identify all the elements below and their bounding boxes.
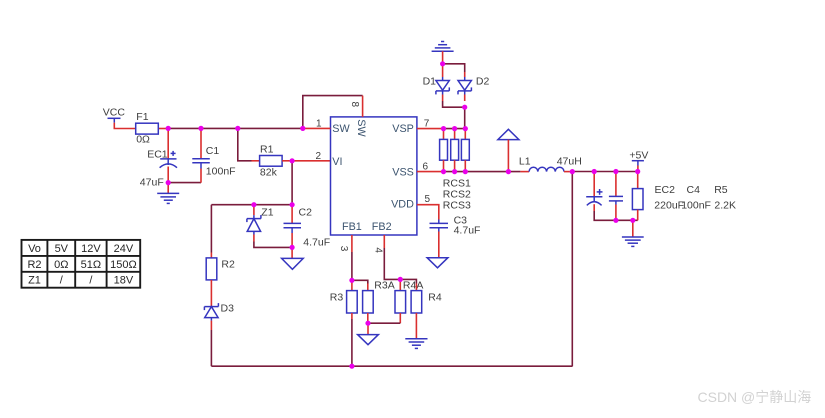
- resistor R3A: [363, 284, 374, 324]
- svg-text:5V: 5V: [55, 243, 69, 255]
- svg-text:Z1: Z1: [261, 206, 273, 218]
- pin 1 lead: [303, 127, 331, 129]
- pin 8 lead: [362, 96, 364, 117]
- junction bottom rail at R3: [349, 364, 354, 369]
- capacitor EC1: [160, 129, 177, 183]
- power port VCC: [103, 107, 126, 123]
- junction C2 bottom: [290, 245, 295, 250]
- wire VCC to F1: [114, 123, 135, 129]
- svg-text:82k: 82k: [260, 167, 278, 179]
- power port +5V: [629, 149, 648, 171]
- junction pin 1 node: [300, 126, 305, 131]
- wire rail to R1: [238, 128, 252, 160]
- svg-text:4.7uF: 4.7uF: [454, 224, 481, 236]
- junction VSS rail RCS1: [441, 169, 446, 174]
- svg-text:4.7uF: 4.7uF: [303, 237, 330, 249]
- svg-text:+5V: +5V: [629, 149, 648, 161]
- ground under R4: [405, 339, 427, 349]
- svg-text:12V: 12V: [81, 243, 101, 255]
- svg-text:51Ω: 51Ω: [81, 259, 101, 271]
- svg-text:SW: SW: [332, 123, 350, 135]
- junction VSP rail RCS1: [441, 126, 446, 131]
- svg-text:R2: R2: [27, 259, 41, 271]
- zener Z1: [247, 205, 261, 242]
- svg-text:47uH: 47uH: [557, 156, 582, 168]
- svg-text:0Ω: 0Ω: [136, 133, 150, 145]
- fuse F1: [136, 123, 169, 134]
- junction input rail at R1 branch: [235, 126, 240, 131]
- wire R3 to bottom rail: [351, 319, 353, 366]
- pin 5 lead and wire to C3: [417, 205, 439, 220]
- wire Z1 to C2 bottom: [254, 242, 292, 248]
- svg-text:VI: VI: [332, 156, 342, 168]
- svg-text:L1: L1: [519, 156, 531, 168]
- wire bottom rail: [211, 365, 572, 367]
- junction R1 output node: [290, 158, 295, 163]
- svg-text:EC1: EC1: [147, 149, 168, 161]
- junction VSS rail RCS2: [452, 169, 457, 174]
- wire VSP rail: [444, 128, 466, 130]
- svg-text:220uF: 220uF: [654, 199, 684, 211]
- junction VSP rail RCS3: [463, 126, 468, 131]
- power port VSS triangle: [498, 129, 519, 171]
- wire pin 4 to R4: [384, 248, 416, 284]
- svg-text:R3: R3: [330, 291, 344, 303]
- wire EC2 C4 R5 bottoms: [594, 211, 638, 220]
- ground under C2: [282, 247, 304, 269]
- wire pin 8 loop: [303, 96, 363, 129]
- ground under C3: [427, 258, 448, 268]
- wire pin3 node to R3A: [352, 280, 368, 283]
- svg-text:C2: C2: [299, 206, 313, 218]
- junction output rail C4: [613, 169, 618, 174]
- wire R1 node down: [291, 161, 293, 205]
- junction output bottom ground: [630, 218, 635, 223]
- pin 4 lead: [383, 235, 385, 248]
- svg-text:FB1: FB1: [342, 221, 362, 233]
- junction FB1 node: [349, 278, 354, 283]
- resistor R5: [632, 172, 643, 221]
- svg-text:VSP: VSP: [392, 123, 414, 135]
- IC U1 switching regulator: [331, 117, 417, 235]
- diode D2: [458, 72, 471, 101]
- wire D1 D2 cathodes to VSP rail: [443, 101, 465, 129]
- junction R3A R4A bottoms: [365, 321, 370, 326]
- pin 3 lead: [351, 235, 353, 252]
- pin 7 lead: [417, 128, 444, 130]
- pin 6 lead: [417, 171, 444, 173]
- svg-text:F1: F1: [136, 111, 148, 123]
- svg-text:2.2K: 2.2K: [714, 199, 736, 211]
- junction VSS rail port: [506, 169, 511, 174]
- ground above D1 D2: [432, 42, 454, 64]
- wire rail down to R2: [210, 205, 212, 253]
- resistor R3: [347, 280, 358, 319]
- junction input rail at EC1: [166, 126, 171, 131]
- zener D3: [204, 303, 218, 330]
- svg-text:VDD: VDD: [391, 198, 414, 210]
- svg-text:EC2: EC2: [655, 184, 676, 196]
- ground under R3A: [358, 323, 379, 345]
- junction output rail EC2: [592, 169, 597, 174]
- capacitor C3: [430, 220, 449, 258]
- svg-text:8: 8: [349, 102, 360, 108]
- svg-text:R2: R2: [221, 259, 235, 271]
- junction input rail at C1: [198, 126, 203, 131]
- capacitor C4: [609, 172, 623, 221]
- svg-text:2: 2: [316, 151, 322, 162]
- svg-text:VCC: VCC: [103, 107, 126, 119]
- svg-text:Vo: Vo: [28, 243, 41, 255]
- wire EC1 to C1 bottom: [168, 182, 201, 184]
- svg-text:Z1: Z1: [28, 275, 41, 287]
- svg-text:R1: R1: [260, 144, 274, 156]
- svg-text:3: 3: [338, 246, 349, 252]
- resistor R4A: [395, 279, 406, 323]
- junction VSP rail RCS2: [452, 126, 457, 131]
- capacitor C1: [192, 129, 210, 183]
- resistor RCS1: [440, 129, 448, 172]
- diode D1: [436, 64, 449, 101]
- wire D3 to bottom rail: [210, 330, 212, 366]
- wire VSS rail: [444, 171, 521, 173]
- junction output bottom C4: [613, 218, 618, 223]
- svg-text:5: 5: [425, 194, 431, 205]
- svg-text:18V: 18V: [114, 275, 134, 287]
- resistor RCS2: [451, 129, 459, 172]
- wire pin 3 down: [351, 252, 353, 280]
- svg-text:6: 6: [423, 161, 429, 172]
- svg-text:R5: R5: [714, 184, 728, 196]
- resistor RCS3: [461, 129, 469, 172]
- wire ground node to D2: [443, 64, 465, 72]
- junction C2 top: [290, 202, 295, 207]
- capacitor C2: [284, 205, 302, 248]
- ground under output rail: [622, 220, 644, 246]
- wire Z1 C2 rail: [211, 204, 292, 206]
- junction diode ground node: [440, 61, 445, 66]
- svg-text:R3A: R3A: [374, 280, 394, 292]
- svg-text:0Ω: 0Ω: [54, 259, 68, 271]
- junction D1 D2 cathode node: [462, 105, 467, 110]
- svg-text:SW: SW: [355, 119, 367, 137]
- svg-text:100nF: 100nF: [681, 199, 711, 211]
- svg-text:24V: 24V: [114, 243, 134, 255]
- svg-text:CSDN @宁静山海: CSDN @宁静山海: [698, 389, 812, 405]
- junction output rail R5: [635, 169, 640, 174]
- inductor L1: [520, 167, 572, 171]
- table of Vo R2 Z1 options: [22, 240, 141, 288]
- resistor R4: [411, 284, 422, 339]
- svg-text:4: 4: [372, 247, 383, 253]
- svg-text:D2: D2: [476, 75, 490, 87]
- svg-text:RCS3: RCS3: [443, 200, 471, 212]
- junction EC1 bottom: [166, 180, 171, 185]
- svg-text:D3: D3: [221, 302, 235, 314]
- junction L1 output node: [570, 169, 575, 174]
- wire R3A to R4A bottoms: [368, 322, 401, 324]
- junction Z1 top: [251, 202, 256, 207]
- capacitor EC2: [586, 172, 602, 212]
- resistor R1: [252, 156, 293, 167]
- junction FB2 node at R4A: [398, 277, 403, 282]
- svg-text:R4: R4: [428, 291, 442, 303]
- svg-text:D1: D1: [423, 75, 437, 87]
- svg-text:150Ω: 150Ω: [110, 259, 137, 271]
- svg-text:47uF: 47uF: [140, 176, 164, 188]
- wire output rail: [572, 171, 637, 173]
- svg-text:C1: C1: [206, 145, 220, 157]
- svg-text:100nF: 100nF: [206, 166, 236, 178]
- wire input rail: [168, 127, 303, 129]
- svg-text:VSS: VSS: [392, 166, 414, 178]
- junction VSS rail RCS3: [463, 169, 468, 174]
- svg-text:FB2: FB2: [372, 221, 392, 233]
- resistor R2: [206, 253, 217, 307]
- svg-text:C4: C4: [687, 184, 701, 196]
- wire R1 to pin 2: [292, 160, 330, 162]
- wire output node down: [571, 172, 573, 367]
- ground under EC1: [157, 183, 179, 204]
